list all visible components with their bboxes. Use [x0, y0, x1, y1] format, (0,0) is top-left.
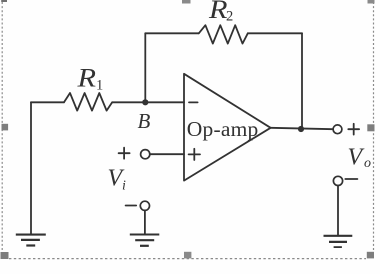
node B junction dot	[142, 99, 148, 105]
resistor R1	[64, 93, 112, 111]
terminal Vi+ circle	[141, 150, 150, 159]
minus sign at Vi- terminal	[126, 205, 137, 207]
terminal Vo+ circle	[333, 125, 342, 134]
wire Vo- to ground	[337, 186, 339, 236]
minus sign at Vo- terminal	[345, 178, 357, 180]
wire top left to R2	[145, 32, 199, 34]
op-amp minus sign (pin label)	[189, 101, 198, 103]
wire feedback right drop	[301, 33, 303, 129]
handle bottom-left	[1, 252, 9, 259]
handle right-middle	[367, 124, 374, 131]
resistor R2	[199, 25, 248, 43]
plus sign at Vi terminal	[119, 148, 130, 159]
handle top-middle	[182, 0, 191, 4]
wire left vertical (input branch to ground)	[30, 102, 32, 233]
op-amp U1 triangle	[184, 74, 271, 181]
handle bottom-middle	[184, 252, 191, 259]
wire feedback riser at node B	[144, 33, 146, 102]
wire left horizontal to R1	[31, 101, 64, 103]
wire Vi- to ground	[144, 211, 146, 234]
plus sign at Vo terminal	[348, 124, 359, 135]
terminal Vi- circle	[140, 201, 149, 210]
node output junction dot	[298, 126, 304, 132]
op-amp plus sign (pin label)	[189, 149, 200, 160]
wire op-amp output	[271, 128, 333, 129]
svg-text:R: R	[208, 0, 228, 24]
svg-text:Op-amp: Op-amp	[187, 117, 259, 141]
ground (left)	[16, 233, 46, 235]
svg-text:V: V	[348, 145, 365, 171]
wire non-inverting input	[150, 153, 184, 155]
wire R2 to right drop	[248, 32, 302, 34]
handle top-right	[368, 0, 375, 4]
handle bottom-right	[367, 252, 374, 259]
ground (middle, Vi-)	[130, 233, 160, 235]
svg-text:2: 2	[226, 9, 233, 25]
svg-text:B: B	[138, 109, 151, 133]
selection border bottom	[9, 258, 366, 260]
selection border left	[1, 2, 3, 252]
terminal Vo- circle	[333, 176, 342, 185]
selection border right	[373, 2, 375, 252]
ground (right, Vo-)	[324, 235, 353, 237]
svg-text:i: i	[122, 179, 126, 194]
svg-text:1: 1	[96, 78, 103, 94]
svg-text:R: R	[76, 64, 96, 93]
handle top-left	[1, 0, 7, 2]
handle left-middle	[2, 124, 9, 131]
wire R1 to op-amp inverting input (through node B)	[112, 101, 184, 103]
svg-text:o: o	[364, 156, 371, 171]
